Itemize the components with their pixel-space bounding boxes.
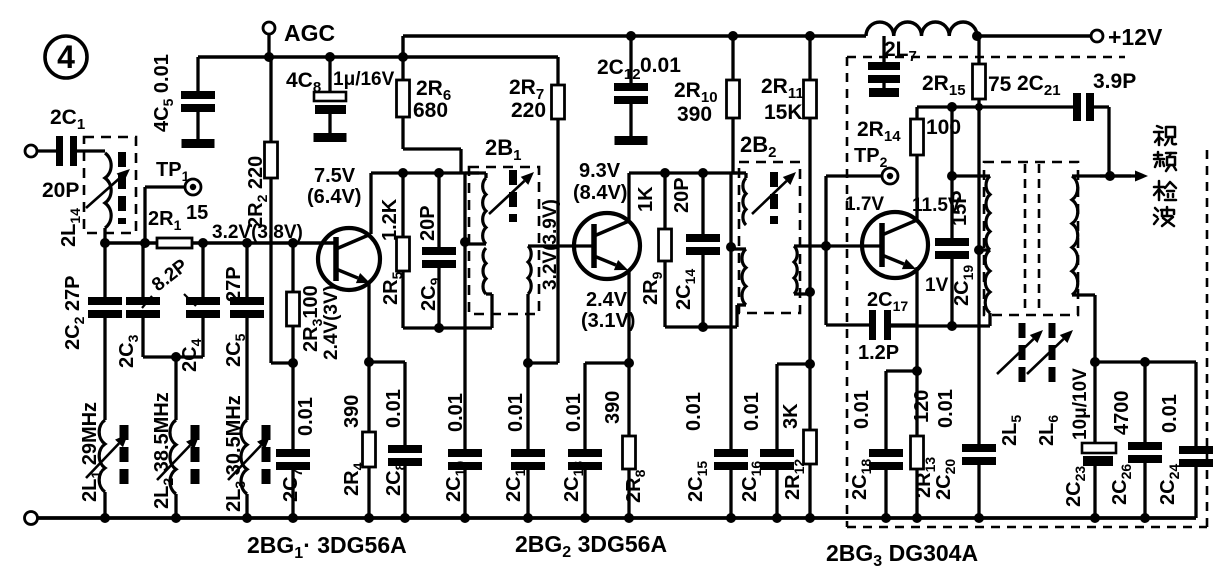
- svg-text:0.01: 0.01: [295, 397, 317, 436]
- svg-text:0.01: 0.01: [935, 389, 957, 428]
- wire Q2 emitter: [627, 270, 630, 363]
- capacitor 2C23 10u/10V: [1063, 362, 1116, 518]
- trimmer arrow 2B1: [489, 172, 534, 214]
- junction 2C20 gnd: [974, 513, 984, 523]
- capacitor 2C1 20P: [42, 106, 105, 202]
- label 9.3V: [573, 160, 627, 204]
- svg-text:4: 4: [57, 39, 75, 75]
- svg-text:10μ/10V: 10μ/10V: [1070, 368, 1091, 440]
- svg-text:2C2 27P: 2C2 27P: [62, 275, 87, 350]
- transformer 2B1 coupling winding: [528, 246, 594, 294]
- wire video out line: [1072, 171, 1148, 182]
- wire 2L5 top feed: [952, 107, 990, 176]
- wire base rail: [105, 241, 336, 244]
- svg-text:2.4V(3V): 2.4V(3V): [321, 285, 342, 360]
- wire 2B2 left line: [731, 173, 746, 449]
- junction 2C3/2C4 node: [171, 352, 181, 362]
- junction 2R9 top: [660, 168, 670, 178]
- inductor 2L2 38.5MHz: [151, 357, 199, 518]
- junction 2C11 node: [523, 358, 533, 368]
- junction output RC node: [1090, 357, 1100, 367]
- trimmer arrow 2B2: [752, 172, 796, 214]
- wire Q3 emitter: [915, 267, 918, 371]
- capacitor 2C7 0.01: [276, 363, 317, 518]
- junction TP2 node: [821, 241, 831, 251]
- capacitor 2C21 3.9P: [1017, 70, 1136, 176]
- test point TP1: [145, 159, 201, 243]
- junction 2R15 cross: [975, 103, 983, 111]
- svg-text:2L2 38.5MHz: 2L2 38.5MHz: [151, 392, 176, 509]
- transformer 2B2 shield box: [739, 162, 800, 313]
- resistor 2R3 100: [287, 238, 326, 363]
- junction 2B2 tap: [726, 242, 736, 252]
- capacitor 2C20 0.01: [933, 389, 996, 518]
- svg-text:7.5V: 7.5V: [314, 165, 356, 187]
- svg-text:0.01: 0.01: [563, 393, 585, 432]
- transformer 2B1 core: [509, 170, 517, 222]
- svg-text:0.01: 0.01: [741, 392, 763, 431]
- junction 2L5 feed: [947, 102, 957, 112]
- inductor 2L14: [58, 137, 136, 247]
- wire 2B2 coupling bottom: [794, 292, 810, 295]
- capacitor 2C12 0.01: [597, 31, 681, 145]
- capacitor 2C2 27P: [62, 243, 122, 420]
- label 2L6: [1036, 415, 1061, 446]
- svg-text:75: 75: [988, 73, 1012, 96]
- wire Q1 emitter: [367, 282, 370, 362]
- capacitor 2C8 0.01: [369, 362, 422, 518]
- label 11.5V: [912, 195, 961, 216]
- junction 2C11 gnd: [523, 513, 533, 523]
- capacitor 2C9 20P: [417, 173, 456, 328]
- label 3.2V(3.8V): [212, 222, 303, 243]
- label 2L5: [999, 415, 1024, 446]
- wire 2C18 branch: [886, 371, 917, 449]
- wire AGC bus y=57: [198, 36, 558, 57]
- label 8.2P: [142, 255, 196, 308]
- junction 2C10 gnd: [460, 513, 470, 523]
- svg-text:2L3 30.5MHz: 2L3 30.5MHz: [223, 395, 248, 512]
- transformer 2B2 primary: [743, 178, 746, 225]
- svg-text:15K: 15K: [764, 101, 803, 124]
- wire emitter to 2C20 line: [891, 321, 990, 331]
- capacitor 2C14 20P: [671, 173, 720, 327]
- junction 2C9 top: [434, 168, 444, 178]
- trimmer core 2L5: [997, 323, 1043, 388]
- junction 2R13 gnd: [912, 513, 922, 523]
- svg-text:100: 100: [926, 116, 961, 139]
- transformer output shield box: [984, 162, 1078, 315]
- resistor 2R2 220: [245, 57, 293, 363]
- svg-text:1.7V: 1.7V: [845, 194, 884, 215]
- resistor 2R8 390: [602, 363, 648, 518]
- trimmer core 2L6: [1027, 323, 1073, 388]
- junction 2R5 top: [398, 168, 408, 178]
- svg-text:680: 680: [413, 99, 448, 122]
- junction 2L1 gnd: [100, 513, 110, 523]
- junction 2L5 tap: [974, 245, 990, 255]
- junction supply/2L7/2R15: [972, 31, 982, 41]
- transformer 2B1 shield box: [469, 167, 539, 314]
- svg-text:15: 15: [186, 202, 208, 224]
- transformer 2B2 core: [770, 172, 778, 224]
- transistor 2BG1: [318, 228, 380, 290]
- svg-text:20P: 20P: [417, 205, 439, 241]
- label 2B1: [485, 135, 521, 164]
- junction 2C15 gnd: [726, 513, 736, 523]
- svg-text:+12V: +12V: [1108, 24, 1163, 50]
- label 2BG1 3DG56A: [247, 532, 407, 562]
- junction 2R11 bottom: [805, 287, 815, 297]
- capacitor 2C17 1.2P: [826, 246, 917, 364]
- junction AGC bus x=403: [398, 52, 408, 62]
- svg-text:4700: 4700: [1111, 391, 1133, 436]
- resistor 2R13 120: [911, 371, 939, 518]
- wire Q2 collector: [627, 173, 630, 220]
- svg-text:0.01: 0.01: [640, 54, 681, 77]
- junction 4C8 top: [325, 52, 335, 62]
- wire 2L6 bottom: [1072, 295, 1095, 362]
- svg-text:2BG2 3DG56A: 2BG2 3DG56A: [515, 531, 667, 561]
- label 7.5V: [307, 165, 361, 208]
- svg-text:9.3V: 9.3V: [579, 160, 621, 182]
- junction 2C8 gnd: [400, 513, 410, 523]
- junction 2C23 gnd: [1090, 513, 1100, 523]
- svg-text:1μ/16V: 1μ/16V: [333, 69, 395, 90]
- test point TP2: [826, 118, 901, 246]
- capacitor 2C5 27P: [223, 238, 264, 420]
- label 3.2V(3.9V): [540, 199, 561, 290]
- transformer 2B2 coupling winding: [794, 246, 882, 294]
- junction 2C26 gnd: [1140, 513, 1150, 523]
- capacitor 4C5 0.01: [151, 54, 215, 148]
- junction 2R12 gnd: [805, 513, 815, 523]
- inductor 2L3 30.5MHz: [223, 395, 270, 518]
- capacitor 2C10 0.01: [443, 393, 482, 518]
- wire collector node y=107: [917, 105, 1073, 108]
- capacitor 2C4 8.2P: [176, 238, 220, 372]
- svg-text:2.4V: 2.4V: [586, 289, 628, 311]
- capacitor 2C16 0.01: [739, 392, 794, 518]
- wire output RC rail: [1095, 357, 1196, 446]
- resistor 2R7 220: [509, 57, 565, 363]
- circled figure number 4: [45, 36, 87, 78]
- junction 2C13 gnd: [580, 513, 590, 523]
- svg-text:15P: 15P: [949, 190, 971, 226]
- junction 2R4 gnd: [364, 513, 374, 523]
- junction AGC drop: [264, 52, 274, 62]
- svg-text:3.9P: 3.9P: [1093, 70, 1136, 93]
- terminal IF input: [25, 145, 56, 157]
- svg-text:120: 120: [911, 390, 933, 423]
- capacitor 2C15 0.01: [683, 392, 748, 518]
- wire Q1 collector: [369, 173, 372, 234]
- label 1.7V: [845, 194, 884, 215]
- svg-text:1.2P: 1.2P: [858, 342, 899, 364]
- label 2B2: [740, 132, 776, 161]
- transformer 2B1 primary: [483, 178, 486, 244]
- inductor 2L5: [985, 176, 990, 326]
- inductor 2L7: [866, 22, 977, 65]
- junction Q1 emitter node: [364, 357, 374, 367]
- wire 2C16 branch: [777, 364, 810, 449]
- svg-text:1V: 1V: [925, 275, 949, 296]
- resistor 2R9 1K: [635, 173, 672, 327]
- label 1V: [925, 275, 949, 296]
- wire 2B1 coupling bottom: [526, 294, 529, 363]
- svg-text:2BG3 DG304A: 2BG3 DG304A: [826, 540, 978, 570]
- svg-text:1.2K: 1.2K: [379, 198, 401, 241]
- svg-text:390: 390: [602, 391, 624, 424]
- resistor 2R5 1.2K: [379, 173, 410, 328]
- junction Q2 emitter node: [624, 358, 634, 368]
- junction input node: [100, 238, 110, 248]
- svg-text:3K: 3K: [780, 403, 802, 429]
- capacitor 2L7 bypass: [868, 36, 900, 97]
- junction 2C18 gnd: [881, 513, 891, 523]
- resistor 2R12 3K: [780, 364, 817, 518]
- capacitor 2C11 0.01: [503, 363, 545, 518]
- resistor 2R4 390: [341, 362, 376, 518]
- junction TP1 node: [140, 238, 150, 248]
- junction 2L2 gnd: [171, 513, 181, 523]
- svg-text:AGC: AGC: [284, 20, 335, 46]
- capacitor 2C3 8.2P: [116, 243, 176, 368]
- transistor 2BG2: [574, 213, 640, 279]
- junction 2B1 tap: [460, 237, 470, 247]
- wire ground rail: [37, 516, 1196, 520]
- wire supply rail y=36: [403, 34, 1091, 38]
- wire 2B2 damp bottom: [665, 305, 746, 332]
- junction 2R8 gnd: [624, 513, 634, 523]
- wire 2B1 left line: [465, 173, 486, 449]
- svg-text:0.01: 0.01: [1159, 394, 1181, 433]
- capacitor 2C26 4700: [1109, 362, 1162, 518]
- svg-text:0.01: 0.01: [851, 390, 873, 429]
- svg-text:27P: 27P: [223, 266, 245, 302]
- shield box stage 3: [847, 57, 1207, 527]
- transformer output core: [1025, 164, 1039, 313]
- svg-text:0.01: 0.01: [505, 393, 527, 432]
- label video detector (Chinese): [1154, 126, 1176, 226]
- junction 2L3 gnd: [242, 513, 252, 523]
- label 2BG3 DG304A: [826, 540, 978, 570]
- inductor 2L6: [1072, 176, 1078, 295]
- svg-text:0.01: 0.01: [683, 392, 705, 431]
- svg-text:0.01: 0.01: [445, 393, 467, 432]
- resistor 2R6 680: [397, 57, 462, 173]
- junction video node: [1105, 171, 1115, 181]
- label 2BG2 3DG56A: [515, 531, 667, 561]
- svg-text:4C5 0.01: 4C5 0.01: [151, 54, 176, 132]
- transformer 2B1 secondary: [483, 248, 492, 294]
- junction 2C19 top: [947, 171, 957, 181]
- svg-text:2L1 29MHz: 2L1 29MHz: [79, 402, 104, 502]
- resistor 2R15 75: [922, 36, 1012, 444]
- label 2.4V(3V): [321, 285, 342, 360]
- terminal +12V: [1091, 24, 1163, 50]
- wire 2B1 damp bottom: [403, 294, 492, 333]
- wire bias to emitter net: [808, 292, 811, 364]
- svg-text:2R2 220: 2R2 220: [245, 156, 270, 228]
- capacitor 2C24 0.01: [1157, 394, 1213, 518]
- svg-text:2BG1· 3DG56A: 2BG1· 3DG56A: [247, 532, 407, 562]
- terminal ground: [25, 512, 38, 525]
- transformer 2B2 secondary: [737, 249, 746, 305]
- svg-text:20P: 20P: [42, 179, 79, 202]
- svg-text:(8.4V): (8.4V): [573, 182, 627, 204]
- capacitor 2C13 0.01: [561, 363, 602, 518]
- svg-text:1K: 1K: [635, 186, 657, 212]
- terminal AGC: [263, 20, 335, 57]
- capacitor 2C19 15P: [935, 176, 976, 326]
- svg-text:0.01: 0.01: [383, 389, 405, 428]
- label 2.4V(3.1V): [581, 289, 635, 332]
- capacitor 2C18 0.01: [849, 390, 903, 518]
- svg-text:(6.4V): (6.4V): [307, 186, 361, 208]
- resistor 2R11 15K: [761, 31, 817, 292]
- resistor 2R14 100: [911, 107, 962, 221]
- resistor 2R10 390: [674, 31, 740, 173]
- capacitor 4C8 1u/16V: [286, 57, 395, 142]
- wire 2R7 bottom joins: [528, 361, 558, 364]
- junction 2R12 node: [805, 359, 815, 369]
- wire Q2 collector node line: [629, 171, 737, 174]
- svg-text:20P: 20P: [671, 177, 693, 213]
- svg-text:3.2V(3.9V): 3.2V(3.9V): [540, 199, 561, 290]
- junction 2C7 gnd: [288, 513, 298, 523]
- junction 2C14 top: [698, 168, 708, 178]
- svg-text:(3.1V): (3.1V): [581, 310, 635, 332]
- junction 2R3/2C7 node: [288, 358, 298, 368]
- transistor 2BG3: [862, 212, 928, 278]
- resistor 2R1 15: [148, 202, 208, 248]
- junction 2C16 gnd: [772, 513, 782, 523]
- wire Q2 emitter bypass: [585, 361, 629, 364]
- junction Q3 emitter node: [912, 366, 922, 376]
- svg-text:220: 220: [511, 99, 546, 122]
- svg-text:390: 390: [677, 103, 712, 126]
- svg-text:390: 390: [341, 395, 363, 428]
- wire 2L14 to base rail: [103, 228, 106, 243]
- wire Q1 collector node line: [371, 171, 479, 174]
- inductor 2L1 29MHz: [79, 402, 128, 518]
